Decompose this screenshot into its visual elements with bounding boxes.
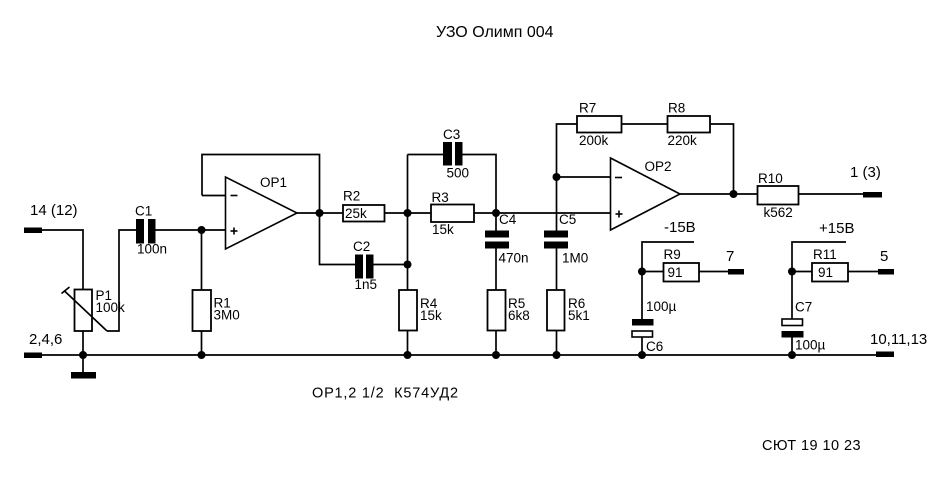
label R2 [343,189,360,204]
svg-text:OP2: OP2 [645,159,672,174]
resistor R7 [577,116,622,133]
label 100n [137,242,167,257]
wire R9 to terminal 7 [699,271,728,273]
wire P1 bottom to rail [82,331,84,355]
label 1 (3) [850,164,881,181]
svg-text:5k1: 5k1 [568,308,590,323]
wire OP1 output down to C2 [320,213,356,265]
op-amp OP2 [611,158,681,230]
svg-text:15k: 15k [420,308,442,323]
ground [71,372,96,379]
capacitor C4 plates [485,231,509,249]
wire node B down to C4 [495,213,497,231]
wire bottom rail [42,354,876,356]
wire -15V stub [642,242,694,272]
svg-text:R11: R11 [813,247,837,262]
wire OP2 minus input [557,176,611,178]
label 5k1 [568,308,590,323]
label 470n [499,251,529,266]
wire C3 left lead [408,154,444,156]
capacitor C3 plates [443,142,463,166]
capacitor C5 plates [544,231,568,249]
node R1 on rail [198,351,206,359]
terminal 7 [728,269,744,275]
wire +15V stub [792,242,846,272]
svg-text:C2: C2 [353,239,370,254]
label 10,11,13 [870,331,927,348]
svg-text:25k: 25k [345,206,367,221]
label OP2 [645,159,672,174]
svg-text:2,4,6: 2,4,6 [29,331,62,348]
node C6 on rail [638,351,646,359]
label OP chip type [312,386,459,402]
wire R11 to terminal 5 [848,271,878,273]
capacitor C7 polarized plate solid [782,331,804,338]
label R3 [432,190,449,205]
label R5 [508,296,525,311]
label R7 [579,101,596,116]
wire OP1 feedback loop [202,155,320,214]
svg-text:91: 91 [668,265,683,280]
resistor R9 [664,263,700,282]
wire ground stub [82,355,84,372]
svg-text:15k: 15k [432,222,454,237]
wire R3 right to OP2 plus input [474,212,611,214]
svg-text:R7: R7 [579,101,596,116]
label 100u C7 [795,338,826,353]
wire node down to C6 [641,272,643,320]
label C2 [353,239,370,254]
wire C7 bottom to rail [791,338,793,356]
node R5 on rail [492,351,500,359]
resistor R4 [399,290,417,331]
svg-text:1n5: 1n5 [355,277,378,292]
resistor R1 [193,290,212,331]
node R11/C7 [788,268,796,276]
label 6k8 [508,308,530,323]
wire C2 right to node [374,264,408,266]
resistor R8 [668,116,711,133]
svg-text:C7: C7 [795,300,812,315]
node P1 / ground on rail [79,351,87,359]
terminal 10,11,13 [876,352,894,358]
label -15V [664,219,696,236]
label C1 [135,204,152,219]
capacitor C6 polarized plates [632,319,654,326]
svg-text:C4: C4 [499,212,517,227]
potentiometer P1 wiper arrow [62,287,108,331]
label 100k [96,300,126,315]
label 220k [668,133,698,148]
node R9/C6 [638,268,646,276]
svg-text:R9: R9 [664,247,681,262]
label 200k [579,133,609,148]
wire node to R11 [792,271,812,273]
svg-text:14 (12): 14 (12) [30,202,78,219]
capacitor C1 plates [136,219,156,244]
node OP2 output [730,190,738,198]
node OP1 output [316,209,324,217]
label 100u C6 [646,299,677,314]
svg-text:R10: R10 [758,171,783,186]
terminal 2,4,6 [24,353,42,359]
svg-text:ОР1,2 1/2 К574УД2: ОР1,2 1/2 К574УД2 [312,386,459,402]
wire P1 wiper riser to C1 [107,230,136,331]
label 14 (12) [30,202,78,219]
svg-text:5: 5 [880,248,888,265]
svg-text:k562: k562 [764,205,793,220]
node R2/R3 junction [404,209,412,217]
wire node to R9 [642,271,664,273]
svg-text:C1: C1 [135,204,152,219]
svg-text:6k8: 6k8 [508,308,530,323]
node C2 junction [404,261,412,269]
svg-text:1M0: 1M0 [562,251,588,266]
capacitor C7 hollow plate [782,319,803,326]
label P1 [96,288,113,303]
svg-text:R8: R8 [668,101,685,116]
wire node down to C7 [791,272,793,320]
wire C5 bottom to R6 [556,248,558,290]
label 1M0 [562,251,588,266]
wire minus node up to R7 [557,124,578,177]
svg-text:1 (3): 1 (3) [850,164,881,181]
label 91 R9 [668,265,683,280]
wire OP1 minus input [202,195,226,197]
node C7 on rail [788,351,796,359]
label pin 7 [726,248,734,265]
wire R10 to output terminal [799,193,864,195]
wire R1 bottom to rail [201,331,203,355]
wire C3 right lead down to node B [463,155,497,214]
label 3M0 [214,308,240,323]
wire node A to R1 top [201,230,203,290]
label date stamp [762,438,861,454]
resistor R10 [758,186,799,205]
label R10 [758,171,783,186]
svg-text:100µ: 100µ [795,338,826,353]
label 15k R3 [432,222,454,237]
wire R6 bottom to rail [556,331,558,356]
wire C1 right to OP1 plus input [156,229,227,231]
wire vertical x407 C3-left down to R4 [407,155,409,291]
label +15V [819,220,854,237]
terminal 5 [878,269,894,275]
capacitor C6 hollow plate [632,331,653,337]
svg-text:СЮТ 19 10 23: СЮТ 19 10 23 [762,438,861,454]
label R11 [813,247,837,262]
svg-text:91: 91 [818,265,833,280]
svg-text:OP1: OP1 [260,175,287,190]
label R1 [214,296,231,311]
label R6 [568,296,585,311]
node OP1 plus input / R1 [198,226,206,234]
svg-text:C5: C5 [559,212,576,227]
node R4 on rail [404,351,412,359]
op-amp OP1 [226,177,298,249]
label 1n5 [355,277,378,292]
wire R8 right down to OP2 output [710,124,734,194]
node OP2 minus input [553,173,561,181]
wire C6 bottom to rail [641,337,643,355]
svg-text:C6: C6 [646,339,663,354]
svg-text:500: 500 [447,166,470,181]
label C7 [795,300,812,315]
wire OP1 output to R2 [297,212,343,214]
svg-text:+15В: +15В [819,220,854,237]
label 91 R11 [818,265,833,280]
label C3 [443,127,460,142]
svg-text:R3: R3 [432,190,449,205]
label 15k R4 [420,308,442,323]
terminal 1(3) [863,192,882,198]
potentiometer P1 body [75,290,93,332]
svg-text:7: 7 [726,248,734,265]
svg-text:-15В: -15В [664,219,696,236]
wire R5 bottom to rail [495,331,497,356]
label R9 [664,247,681,262]
svg-text:470n: 470n [499,251,529,266]
label R4 [420,296,438,311]
label 500 [447,166,470,181]
wire OP2 minus node down through C5 [556,177,558,231]
node R3/C4 junction [492,209,500,217]
capacitor C2 plates [355,255,374,279]
resistor R11 [812,263,848,282]
label C5 [559,212,576,227]
svg-text:100n: 100n [137,242,167,257]
resistor R2 [343,205,385,222]
node R6 on rail [553,351,561,359]
wire R7 to R8 [622,123,668,125]
terminal 14(12) [24,228,42,234]
resistor R5 [488,290,506,331]
label k562 [764,205,793,220]
svg-text:УЗО Олимп 004: УЗО Олимп 004 [436,24,554,41]
svg-text:100k: 100k [96,300,126,315]
wire R2 right to R3 left [385,212,432,214]
wire C4 bottom to R5 [495,248,497,290]
label 2,4,6 [29,331,62,348]
wire input 14(12) to P1 top [42,230,83,290]
wire OP2 output to R10 [680,193,758,195]
label OP1 [260,175,287,190]
svg-text:R2: R2 [343,189,360,204]
resistor R3 [431,205,474,223]
label pin 5 [880,248,888,265]
label C6 [646,339,663,354]
svg-text:C3: C3 [443,127,460,142]
label C4 [499,212,517,227]
label title [436,24,554,41]
svg-text:200k: 200k [579,133,609,148]
wire R4 bottom to rail [407,331,409,356]
svg-text:220k: 220k [668,133,698,148]
svg-text:100µ: 100µ [646,299,677,314]
svg-text:3M0: 3M0 [214,308,240,323]
resistor R6 [547,290,565,331]
label 25k [345,206,367,221]
label R8 [668,101,685,116]
svg-text:10,11,13: 10,11,13 [870,331,927,348]
